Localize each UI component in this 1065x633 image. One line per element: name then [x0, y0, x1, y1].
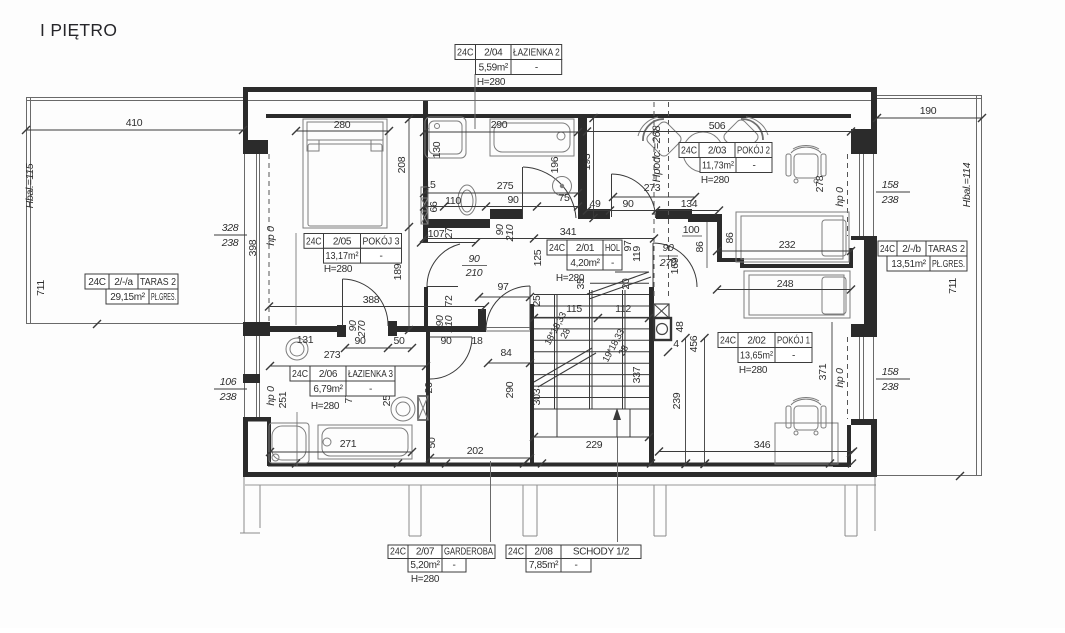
svg-text:hp 0: hp 0: [834, 187, 846, 207]
svg-text:238: 238: [881, 381, 899, 393]
svg-text:270: 270: [659, 257, 677, 269]
svg-text:Hpodc.=268: Hpodc.=268: [651, 125, 663, 183]
svg-text:337: 337: [631, 366, 643, 383]
svg-text:SCHODY 1/2: SCHODY 1/2: [573, 547, 630, 558]
svg-text:341: 341: [560, 226, 577, 238]
svg-text:27: 27: [443, 227, 455, 239]
svg-text:290: 290: [491, 119, 508, 131]
svg-text:90: 90: [622, 198, 634, 210]
svg-text:49: 49: [589, 198, 601, 210]
svg-text:2/08: 2/08: [534, 547, 553, 558]
svg-text:POKÓJ 1: POKÓJ 1: [777, 334, 810, 347]
svg-text:H=280: H=280: [311, 401, 340, 412]
svg-text:410: 410: [126, 117, 143, 129]
svg-text:238: 238: [881, 194, 899, 206]
svg-text:2/05: 2/05: [333, 236, 352, 247]
svg-text:hp 0: hp 0: [265, 386, 277, 406]
svg-text:239: 239: [671, 392, 683, 409]
svg-text:TARAS 2: TARAS 2: [928, 244, 965, 255]
svg-text:125: 125: [532, 249, 544, 266]
svg-text:-: -: [379, 251, 382, 262]
svg-text:90: 90: [468, 253, 480, 265]
svg-text:210: 210: [443, 315, 455, 333]
svg-text:24C: 24C: [681, 146, 697, 157]
svg-text:20: 20: [620, 278, 632, 290]
svg-text:456: 456: [688, 335, 700, 352]
svg-text:2/-/a: 2/-/a: [114, 277, 133, 288]
svg-text:100: 100: [683, 224, 700, 236]
svg-text:hp 0: hp 0: [265, 226, 277, 246]
svg-text:158: 158: [882, 179, 899, 191]
svg-text:115: 115: [566, 303, 582, 315]
svg-text:29,15m²: 29,15m²: [110, 292, 146, 303]
svg-text:24C: 24C: [88, 277, 106, 288]
svg-text:273: 273: [644, 182, 661, 194]
svg-text:24C: 24C: [390, 547, 406, 558]
svg-text:24C: 24C: [720, 336, 736, 347]
svg-text:290: 290: [504, 381, 516, 398]
svg-text:189: 189: [392, 263, 404, 280]
svg-text:388: 388: [363, 294, 380, 306]
svg-text:24C: 24C: [292, 369, 308, 380]
svg-text:2/01: 2/01: [576, 243, 595, 254]
svg-text:84: 84: [500, 347, 512, 359]
svg-text:90: 90: [507, 194, 519, 206]
svg-text:190: 190: [920, 105, 937, 117]
svg-text:H=280: H=280: [411, 574, 440, 585]
svg-text:11,73m²: 11,73m²: [702, 161, 735, 172]
svg-text:13,51m²: 13,51m²: [891, 259, 927, 270]
svg-text:-: -: [792, 351, 795, 362]
svg-text:POKÓJ 3: POKÓJ 3: [363, 234, 400, 247]
svg-text:7,85m²: 7,85m²: [529, 560, 559, 571]
svg-text:106: 106: [220, 376, 237, 388]
svg-text:18: 18: [471, 335, 483, 347]
svg-text:75: 75: [558, 192, 570, 204]
svg-text:-: -: [535, 63, 538, 74]
svg-text:24C: 24C: [880, 244, 895, 255]
svg-text:275: 275: [497, 180, 514, 192]
svg-text:26: 26: [423, 382, 435, 394]
svg-text:158: 158: [882, 366, 899, 378]
svg-text:-: -: [369, 384, 372, 395]
svg-text:229: 229: [586, 439, 603, 451]
svg-text:119: 119: [631, 246, 643, 262]
svg-text:2/06: 2/06: [319, 369, 338, 380]
svg-text:24C: 24C: [508, 547, 524, 558]
svg-text:TARAS 2: TARAS 2: [140, 277, 176, 288]
svg-text:13,65m²: 13,65m²: [740, 351, 774, 362]
svg-text:371: 371: [817, 363, 829, 380]
svg-text:280: 280: [334, 119, 351, 131]
svg-text:193: 193: [581, 153, 593, 170]
svg-text:GARDEROBA: GARDEROBA: [444, 547, 493, 558]
svg-text:72: 72: [443, 295, 455, 307]
svg-text:-: -: [752, 161, 755, 172]
svg-text:-: -: [574, 560, 577, 571]
svg-text:210: 210: [504, 224, 516, 242]
svg-text:711: 711: [35, 280, 47, 296]
svg-text:H=280: H=280: [556, 273, 585, 284]
svg-text:ŁAZIENKA 2: ŁAZIENKA 2: [513, 48, 560, 59]
svg-text:ŁAZIENKA 3: ŁAZIENKA 3: [348, 369, 393, 380]
svg-text:2/03: 2/03: [708, 146, 727, 157]
svg-text:50: 50: [393, 335, 405, 347]
svg-text:90: 90: [440, 335, 452, 347]
svg-text:208: 208: [396, 156, 408, 173]
svg-text:112: 112: [615, 303, 631, 315]
svg-text:2/07: 2/07: [416, 547, 435, 558]
svg-text:2/04: 2/04: [484, 48, 503, 59]
svg-text:13,17m²: 13,17m²: [326, 251, 360, 262]
svg-text:273: 273: [324, 349, 341, 361]
svg-text:-: -: [611, 258, 614, 269]
svg-text:232: 232: [779, 239, 796, 251]
svg-text:I PIĘTRO: I PIĘTRO: [40, 20, 117, 40]
svg-text:4,20m²: 4,20m²: [570, 258, 600, 269]
svg-text:15: 15: [424, 179, 436, 191]
svg-text:398: 398: [247, 239, 259, 256]
svg-text:5,59m²: 5,59m²: [479, 63, 509, 74]
svg-text:130: 130: [431, 141, 443, 158]
svg-text:238: 238: [221, 237, 239, 249]
svg-text:210: 210: [465, 267, 483, 279]
svg-text:5,20m²: 5,20m²: [410, 560, 440, 571]
svg-text:Hbal.=115: Hbal.=115: [24, 163, 36, 208]
svg-text:24C: 24C: [306, 236, 322, 247]
svg-text:303: 303: [531, 388, 543, 405]
svg-text:110: 110: [445, 195, 461, 207]
svg-text:50: 50: [426, 437, 438, 449]
svg-text:251: 251: [277, 391, 289, 408]
svg-text:202: 202: [467, 445, 484, 457]
svg-text:25: 25: [531, 295, 543, 307]
svg-text:PŁ.GRES.: PŁ.GRES.: [151, 292, 176, 303]
svg-text:-: -: [452, 560, 455, 571]
svg-text:POKÓJ 2: POKÓJ 2: [737, 144, 770, 157]
svg-text:H=280: H=280: [477, 77, 506, 88]
svg-text:86: 86: [724, 232, 736, 244]
svg-text:90: 90: [662, 242, 674, 254]
svg-text:24C: 24C: [457, 48, 474, 59]
svg-text:4: 4: [673, 338, 679, 350]
svg-text:196: 196: [549, 156, 561, 173]
svg-text:H=280: H=280: [324, 264, 353, 275]
svg-text:134: 134: [681, 198, 698, 210]
svg-text:Hbal.=114: Hbal.=114: [961, 162, 973, 207]
svg-text:24C: 24C: [549, 243, 565, 254]
svg-text:86: 86: [694, 241, 706, 253]
svg-text:271: 271: [340, 438, 357, 450]
svg-text:2/-/b: 2/-/b: [902, 244, 921, 255]
svg-text:48: 48: [674, 321, 686, 333]
svg-text:H=280: H=280: [739, 365, 768, 376]
svg-text:hp 0: hp 0: [834, 368, 846, 388]
svg-text:278: 278: [814, 175, 826, 192]
svg-text:711: 711: [947, 278, 959, 294]
svg-text:HOL: HOL: [605, 243, 620, 254]
svg-text:H=280: H=280: [701, 175, 730, 186]
svg-text:97: 97: [497, 281, 509, 293]
svg-text:6,79m²: 6,79m²: [313, 384, 343, 395]
svg-text:346: 346: [754, 439, 771, 451]
svg-text:238: 238: [219, 391, 237, 403]
svg-text:248: 248: [777, 278, 794, 290]
svg-text:PŁ.GRES.: PŁ.GRES.: [932, 259, 965, 270]
svg-text:2/02: 2/02: [747, 336, 766, 347]
svg-text:66: 66: [428, 201, 440, 213]
svg-text:506: 506: [709, 120, 726, 132]
svg-text:328: 328: [222, 222, 239, 234]
svg-text:131: 131: [297, 334, 314, 346]
svg-text:90: 90: [354, 335, 366, 347]
